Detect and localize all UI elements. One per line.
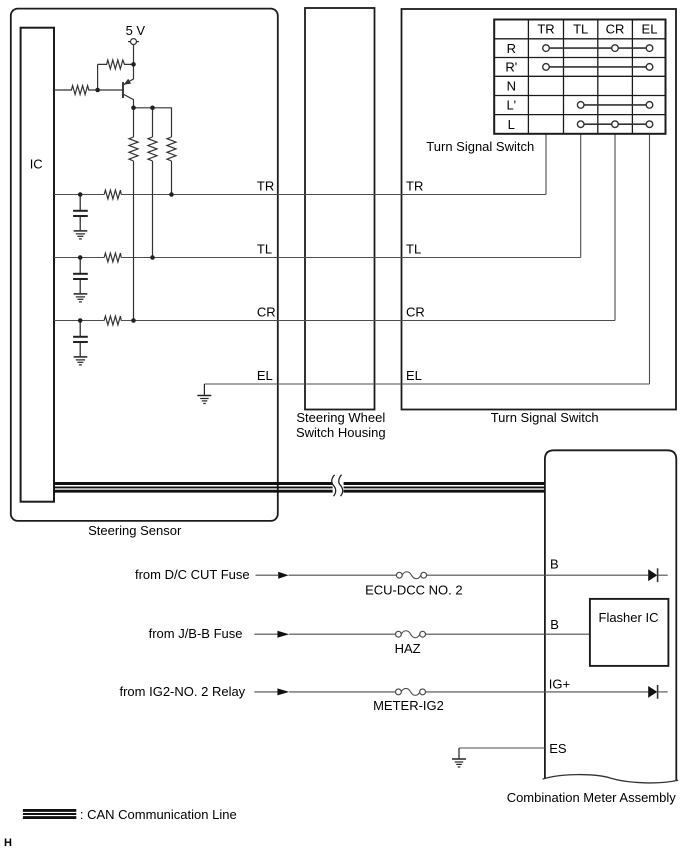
svg-text:Steering Sensor: Steering Sensor bbox=[88, 523, 182, 538]
svg-text:IC: IC bbox=[30, 156, 43, 171]
svg-text:from D/C CUT Fuse: from D/C CUT Fuse bbox=[135, 567, 250, 582]
svg-text:TR: TR bbox=[257, 179, 274, 194]
svg-text:ECU-DCC NO. 2: ECU-DCC NO. 2 bbox=[365, 583, 463, 598]
svg-text:Switch Housing: Switch Housing bbox=[296, 425, 386, 440]
svg-text:EL: EL bbox=[642, 22, 658, 37]
svg-text:L': L' bbox=[506, 98, 516, 113]
svg-text:Steering Wheel: Steering Wheel bbox=[296, 410, 385, 425]
svg-text:CR: CR bbox=[606, 22, 625, 37]
svg-text:TR: TR bbox=[537, 22, 554, 37]
svg-text:H: H bbox=[4, 837, 12, 849]
svg-text:B: B bbox=[550, 617, 559, 632]
svg-text:Turn Signal Switch: Turn Signal Switch bbox=[491, 410, 599, 425]
svg-text:L: L bbox=[508, 117, 515, 132]
svg-text:from IG2-NO. 2 Relay: from IG2-NO. 2 Relay bbox=[119, 684, 245, 699]
svg-text:CR: CR bbox=[406, 305, 425, 320]
svg-text:from J/B-B Fuse: from J/B-B Fuse bbox=[149, 626, 243, 641]
svg-text:Flasher IC: Flasher IC bbox=[599, 610, 659, 625]
svg-text:ES: ES bbox=[549, 741, 567, 756]
svg-text:N: N bbox=[507, 79, 516, 94]
svg-text:: CAN Communication Line: : CAN Communication Line bbox=[80, 807, 237, 822]
svg-text:EL: EL bbox=[406, 368, 422, 383]
svg-text:METER-IG2: METER-IG2 bbox=[373, 698, 444, 713]
svg-text:Turn Signal Switch: Turn Signal Switch bbox=[426, 139, 534, 154]
svg-text:TL: TL bbox=[573, 22, 588, 37]
svg-text:Combination Meter Assembly: Combination Meter Assembly bbox=[507, 790, 677, 805]
svg-text:CR: CR bbox=[257, 305, 276, 320]
svg-text:HAZ: HAZ bbox=[395, 641, 421, 656]
svg-text:EL: EL bbox=[257, 368, 273, 383]
svg-text:IG+: IG+ bbox=[549, 676, 570, 691]
svg-text:R': R' bbox=[505, 60, 517, 75]
svg-text:B: B bbox=[550, 557, 559, 572]
svg-text:5 V: 5 V bbox=[126, 23, 146, 38]
svg-text:TR: TR bbox=[406, 179, 423, 194]
svg-text:TL: TL bbox=[406, 242, 421, 257]
svg-text:R: R bbox=[507, 41, 516, 56]
svg-text:TL: TL bbox=[257, 242, 272, 257]
